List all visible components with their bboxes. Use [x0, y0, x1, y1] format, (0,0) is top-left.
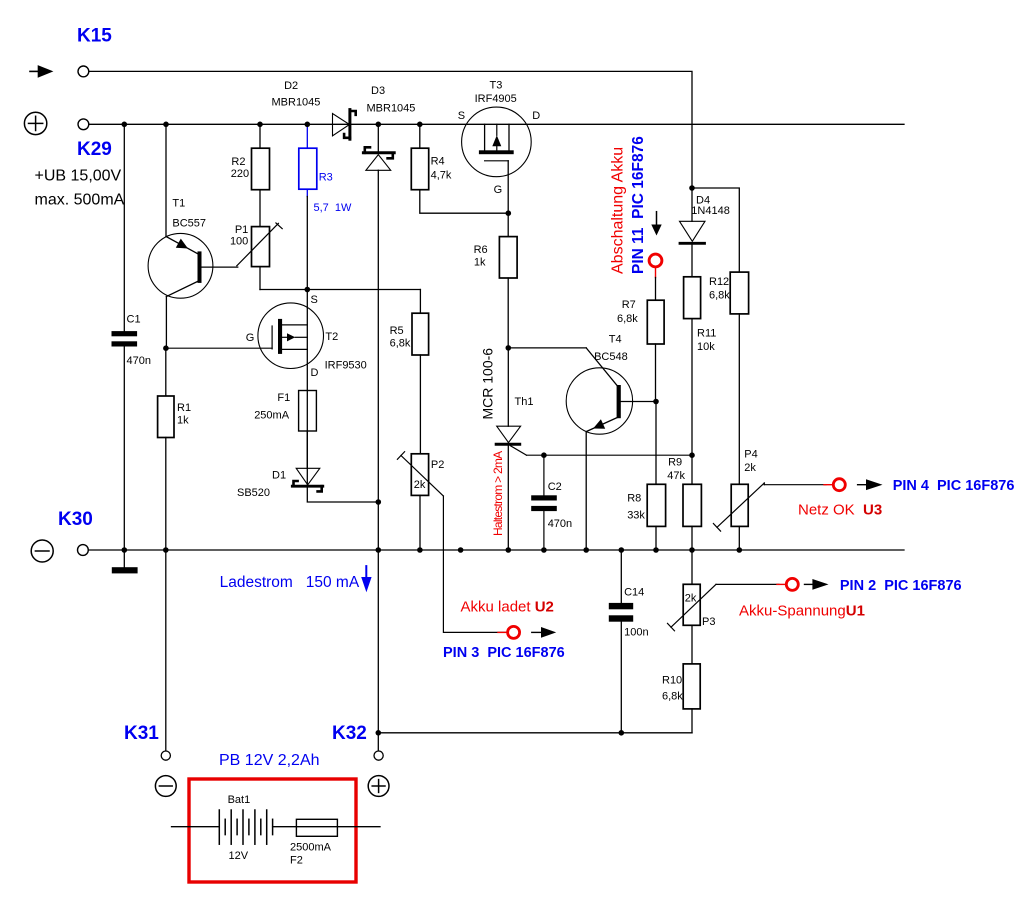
wire D4 node to R12	[692, 188, 739, 272]
svg-text:P1: P1	[235, 224, 248, 236]
wire K30 to K31 terminal	[165, 550, 167, 751]
svg-text:T1: T1	[172, 198, 185, 210]
svg-text:R4: R4	[431, 156, 445, 168]
svg-text:100: 100	[230, 235, 248, 247]
wire P2 wiper to PIN3 port	[443, 496, 505, 632]
svg-text:F1: F1	[277, 392, 290, 404]
svg-text:6,8k: 6,8k	[709, 290, 730, 302]
resistor R12	[709, 272, 749, 484]
input arrow at K15	[30, 65, 53, 78]
battery enclosure red box	[189, 779, 356, 882]
svg-text:R11: R11	[697, 328, 716, 340]
svg-text:PIN 11 PIC 16F876: PIN 11 PIC 16F876	[630, 136, 647, 274]
resistor R7	[617, 278, 664, 402]
port circle PIN3	[508, 626, 520, 638]
node Th1 anode junction	[506, 345, 512, 351]
wire red stub at PIN4	[824, 484, 833, 486]
node C14 bottom junction	[619, 730, 625, 736]
svg-text:Netz OK U3: Netz OK U3	[798, 502, 882, 519]
svg-text:6,8k: 6,8k	[617, 313, 638, 325]
capacitor C2	[531, 455, 572, 550]
node R9 top junction	[689, 452, 695, 458]
svg-text:220: 220	[231, 168, 249, 180]
svg-text:MCR 100-6: MCR 100-6	[480, 348, 496, 420]
arrow Ladestrom (blue)	[361, 566, 371, 592]
svg-text:T4: T4	[609, 334, 622, 346]
svg-text:D1: D1	[272, 469, 286, 481]
svg-text:+UB 15,00V: +UB 15,00V	[35, 167, 122, 184]
potentiometer P3	[668, 550, 717, 631]
svg-text:2k: 2k	[744, 462, 756, 474]
fuse F2 2500mA	[273, 819, 380, 866]
svg-text:BC548: BC548	[594, 351, 628, 363]
wire K32 bottom line	[378, 732, 692, 734]
node C2 junction	[541, 452, 547, 458]
wire Th1 gate line	[527, 454, 693, 456]
svg-text:470n: 470n	[548, 518, 572, 530]
port circle PIN4	[833, 479, 845, 491]
node K30 rail junctions	[122, 547, 743, 553]
diode D1 SB520	[237, 431, 323, 499]
svg-text:F2: F2	[290, 855, 303, 867]
svg-text:PIN 2 PIC 16F876: PIN 2 PIC 16F876	[840, 578, 962, 594]
ground bar below K30 rail	[112, 550, 138, 573]
terminal K15	[78, 66, 89, 77]
svg-text:Abschaltung Akku: Abschaltung Akku	[609, 147, 626, 274]
wire +UB rail	[89, 123, 904, 125]
svg-text:S: S	[458, 110, 465, 122]
wire D1 anode to D3 column	[307, 486, 378, 502]
wire T1 collector to T2 gate	[166, 347, 272, 349]
svg-text:Bat1: Bat1	[228, 794, 251, 806]
svg-text:R5: R5	[390, 325, 404, 337]
svg-text:C14: C14	[624, 586, 644, 598]
svg-text:5,7 1W: 5,7 1W	[314, 202, 353, 214]
svg-text:6,8k: 6,8k	[662, 690, 683, 702]
resistor R1	[158, 348, 191, 550]
resistor R11	[684, 277, 717, 455]
svg-text:K15: K15	[77, 25, 112, 46]
svg-text:T3: T3	[490, 79, 503, 91]
potentiometer P4	[713, 449, 764, 551]
transistor T2 IRF9530	[246, 290, 367, 487]
node K15/D4 junction	[689, 185, 695, 191]
arrow at PIN4	[858, 479, 883, 490]
svg-text:R9: R9	[668, 457, 682, 469]
terminal K31	[161, 751, 170, 760]
svg-text:max. 500mA: max. 500mA	[35, 191, 125, 208]
wire D3 column to K30 rail and K32	[377, 502, 379, 751]
svg-text:PB 12V 2,2Ah: PB 12V 2,2Ah	[219, 752, 320, 769]
svg-text:R8: R8	[627, 493, 641, 505]
wire S node line	[260, 289, 420, 291]
svg-text:2500mA: 2500mA	[290, 842, 332, 854]
wire P4 wiper to PIN4 port	[763, 483, 765, 485]
svg-text:G: G	[246, 332, 255, 344]
node T1 collector junction	[163, 345, 169, 351]
transistor T4 BC548	[508, 334, 656, 550]
svg-text:MBR1045: MBR1045	[272, 97, 321, 109]
svg-text:Haltestrom > 2mA: Haltestrom > 2mA	[491, 451, 505, 536]
svg-text:250mA: 250mA	[254, 409, 290, 421]
svg-text:P2: P2	[431, 459, 444, 471]
svg-text:D3: D3	[371, 85, 385, 97]
svg-text:PIN 4 PIC 16F876: PIN 4 PIC 16F876	[893, 478, 1015, 494]
arrow at PIN2	[805, 579, 829, 590]
battery Bat1	[172, 810, 273, 844]
svg-text:6,8k: 6,8k	[390, 337, 411, 349]
plus symbol at K32	[368, 776, 389, 797]
wire red stub at PIN2	[777, 583, 786, 585]
diode D4 1N4148	[680, 188, 730, 277]
svg-text:4,7k: 4,7k	[431, 170, 452, 182]
resistor R6	[474, 213, 517, 348]
svg-text:R12: R12	[709, 276, 729, 288]
wire red stub below PIN11	[655, 268, 657, 278]
arrow at PIN3	[532, 627, 556, 638]
diode D2 MBR1045	[272, 80, 356, 139]
svg-text:S: S	[311, 294, 318, 306]
potentiometer P2	[397, 452, 444, 550]
svg-text:Akku ladet U2: Akku ladet U2	[461, 599, 554, 616]
svg-text:R10: R10	[662, 674, 682, 686]
svg-text:33k: 33k	[627, 509, 645, 521]
wire GND rail K30	[88, 549, 904, 551]
svg-text:2k: 2k	[414, 479, 426, 491]
svg-text:K29: K29	[77, 139, 112, 160]
svg-text:47k: 47k	[667, 470, 685, 482]
svg-text:P3: P3	[702, 616, 715, 628]
node T3 gate junction	[506, 210, 512, 216]
node +UB rail junctions	[122, 122, 423, 128]
transistor T1 BC557	[148, 124, 238, 348]
resistor R10	[662, 625, 700, 733]
diode D3 MBR1045 (zener to gnd)	[363, 85, 415, 502]
svg-text:Akku-SpannungU1: Akku-SpannungU1	[739, 603, 865, 620]
svg-text:K31: K31	[124, 723, 159, 744]
svg-text:SB520: SB520	[237, 487, 270, 499]
svg-text:D: D	[311, 367, 319, 379]
port circle PIN2	[786, 578, 798, 590]
wire R3 bottom to S node	[306, 197, 308, 290]
svg-text:D2: D2	[284, 80, 298, 92]
svg-text:Ladestrom 150 mA: Ladestrom 150 mA	[220, 574, 360, 591]
wire red stub at PIN3	[498, 631, 507, 633]
svg-text:IRF9530: IRF9530	[325, 360, 367, 372]
svg-text:G: G	[494, 184, 503, 196]
fuse F1 250mA	[254, 391, 316, 432]
resistor R2	[231, 124, 270, 189]
thyristor Th1	[496, 348, 533, 550]
node D1/D3 junction	[376, 499, 382, 505]
svg-text:BC557: BC557	[172, 218, 206, 230]
plus symbol at K29	[24, 112, 46, 134]
wire net K15 top	[89, 71, 692, 188]
resistor R3 (blue)	[299, 124, 352, 214]
svg-text:P4: P4	[744, 449, 757, 461]
svg-text:470n: 470n	[127, 355, 151, 367]
capacitor C1	[112, 124, 151, 550]
svg-text:R7: R7	[622, 299, 636, 311]
arrow down to PIN11 port	[651, 212, 661, 236]
svg-text:100n: 100n	[624, 626, 648, 638]
svg-text:T2: T2	[325, 331, 338, 343]
svg-text:IRF4905: IRF4905	[475, 93, 517, 105]
svg-text:K30: K30	[58, 509, 93, 530]
svg-text:R3: R3	[319, 171, 333, 183]
svg-text:12V: 12V	[229, 850, 249, 862]
svg-text:Th1: Th1	[515, 396, 534, 408]
node K32 junction	[376, 730, 382, 736]
terminal K30	[78, 545, 89, 556]
svg-text:C1: C1	[127, 314, 141, 326]
minus symbol at K30	[31, 540, 53, 562]
resistor R4	[411, 124, 508, 213]
svg-text:R6: R6	[474, 244, 488, 256]
capacitor C14	[609, 550, 649, 733]
terminal K29	[78, 119, 89, 130]
minus symbol at K31	[155, 776, 176, 797]
svg-text:1k: 1k	[474, 256, 486, 268]
svg-text:D: D	[532, 110, 540, 122]
resistor R9	[667, 455, 701, 550]
svg-text:R2: R2	[231, 156, 245, 168]
svg-text:2k: 2k	[685, 592, 697, 604]
svg-text:1N4148: 1N4148	[691, 205, 730, 217]
svg-text:MBR1045: MBR1045	[367, 103, 416, 115]
svg-text:PIN 3 PIC 16F876: PIN 3 PIC 16F876	[443, 645, 565, 661]
node R3/T2 source junction	[305, 287, 311, 293]
port circle PIN11	[649, 254, 662, 267]
wire P3 wiper to PIN2 port	[716, 583, 779, 585]
resistor R8	[627, 402, 665, 551]
node T4 base junction	[653, 399, 659, 405]
svg-text:1k: 1k	[177, 415, 189, 427]
potentiometer P1	[230, 190, 282, 290]
svg-text:R1: R1	[177, 402, 191, 414]
svg-text:10k: 10k	[697, 341, 715, 353]
svg-text:K32: K32	[332, 723, 367, 744]
transistor T3 IRF4905	[458, 79, 540, 213]
terminal K32	[374, 751, 383, 760]
svg-text:C2: C2	[548, 481, 562, 493]
resistor R5	[390, 290, 429, 454]
